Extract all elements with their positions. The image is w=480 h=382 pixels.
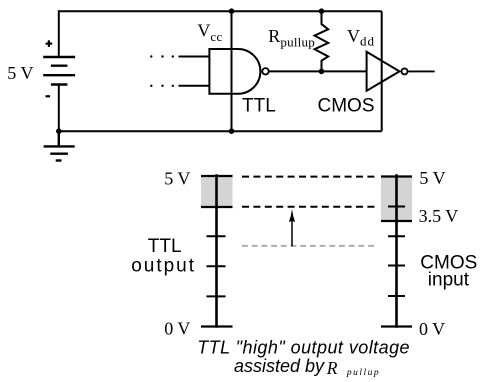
battery 5V [43, 57, 75, 85]
ground [44, 131, 75, 160]
CMOS 1V tick [388, 295, 405, 297]
svg-text:0 V: 0 V [419, 319, 445, 339]
TTL output scale gray region [201, 175, 233, 207]
svg-text:TTL "high" output voltage: TTL "high" output voltage [197, 337, 410, 357]
CMOS 3.5V level line [381, 220, 412, 222]
wire bottom rail [59, 130, 382, 132]
CMOS 3V tick [388, 235, 405, 237]
wire CMOS output [408, 70, 435, 72]
NAND output bubble [262, 68, 268, 74]
wire battery negative lead [58, 85, 60, 132]
wire input 2 [179, 85, 211, 87]
battery minus sign [46, 95, 51, 97]
node resistor bottom junction [319, 69, 325, 75]
svg-text:assisted by: assisted by [234, 356, 325, 376]
TTL 0V tick [201, 325, 233, 327]
wire input 1 [179, 56, 211, 58]
node TTL bottom junction [229, 128, 235, 134]
CMOS output bubble [402, 68, 408, 74]
node resistor top junction [319, 8, 325, 14]
wire Vcc vertical through TTL gate [231, 11, 233, 131]
CMOS 4V tick [388, 206, 405, 208]
buffer CMOS triangle [367, 52, 400, 91]
dashed line gray old TTL level [242, 245, 376, 247]
battery plus sign [46, 40, 53, 47]
CMOS input axis [395, 174, 398, 327]
svg-text:0 V: 0 V [164, 319, 190, 339]
CMOS 2V tick [388, 265, 405, 267]
resistor Rpullup [315, 11, 329, 71]
svg-text:pullup: pullup [346, 368, 380, 378]
arrow up [289, 209, 295, 246]
CMOS 0V tick [381, 325, 412, 327]
TTL output axis [215, 174, 218, 327]
wire right side vertical [381, 11, 383, 131]
svg-text:Vcc: Vcc [197, 21, 222, 44]
svg-text:5 V: 5 V [7, 63, 33, 83]
TTL 4V level line [201, 206, 233, 208]
svg-text:5 V: 5 V [419, 168, 445, 188]
svg-text:TTL: TTL [148, 236, 182, 257]
svg-text:input: input [428, 270, 470, 291]
wire gate output to CMOS input [269, 70, 367, 72]
svg-text:Rpullup: Rpullup [268, 26, 315, 50]
node battery-ground junction [56, 128, 62, 134]
svg-text:Vdd: Vdd [347, 26, 375, 48]
NAND gate TTL [209, 49, 260, 94]
svg-text:R: R [326, 358, 338, 378]
svg-text:5 V: 5 V [164, 168, 190, 188]
node Vcc top junction [229, 8, 235, 14]
TTL 3V tick [207, 235, 226, 237]
CMOS 5V tick [381, 175, 412, 177]
TTL 5V tick [201, 175, 233, 177]
wire battery positive lead [58, 10, 60, 57]
svg-text:3.5 V: 3.5 V [419, 206, 459, 226]
svg-text:CMOS: CMOS [318, 95, 375, 116]
TTL 1V tick [207, 295, 226, 297]
CMOS input scale gray region [381, 177, 412, 222]
svg-text:output: output [131, 255, 196, 276]
dashed line 5V level [242, 176, 376, 178]
dashed line pulled-up level [242, 206, 376, 208]
TTL 2V tick [207, 265, 226, 267]
wire top rail [59, 10, 382, 12]
input dots row 2 [150, 85, 174, 87]
svg-text:TTL: TTL [242, 95, 276, 116]
input dots row 1 [150, 55, 174, 57]
